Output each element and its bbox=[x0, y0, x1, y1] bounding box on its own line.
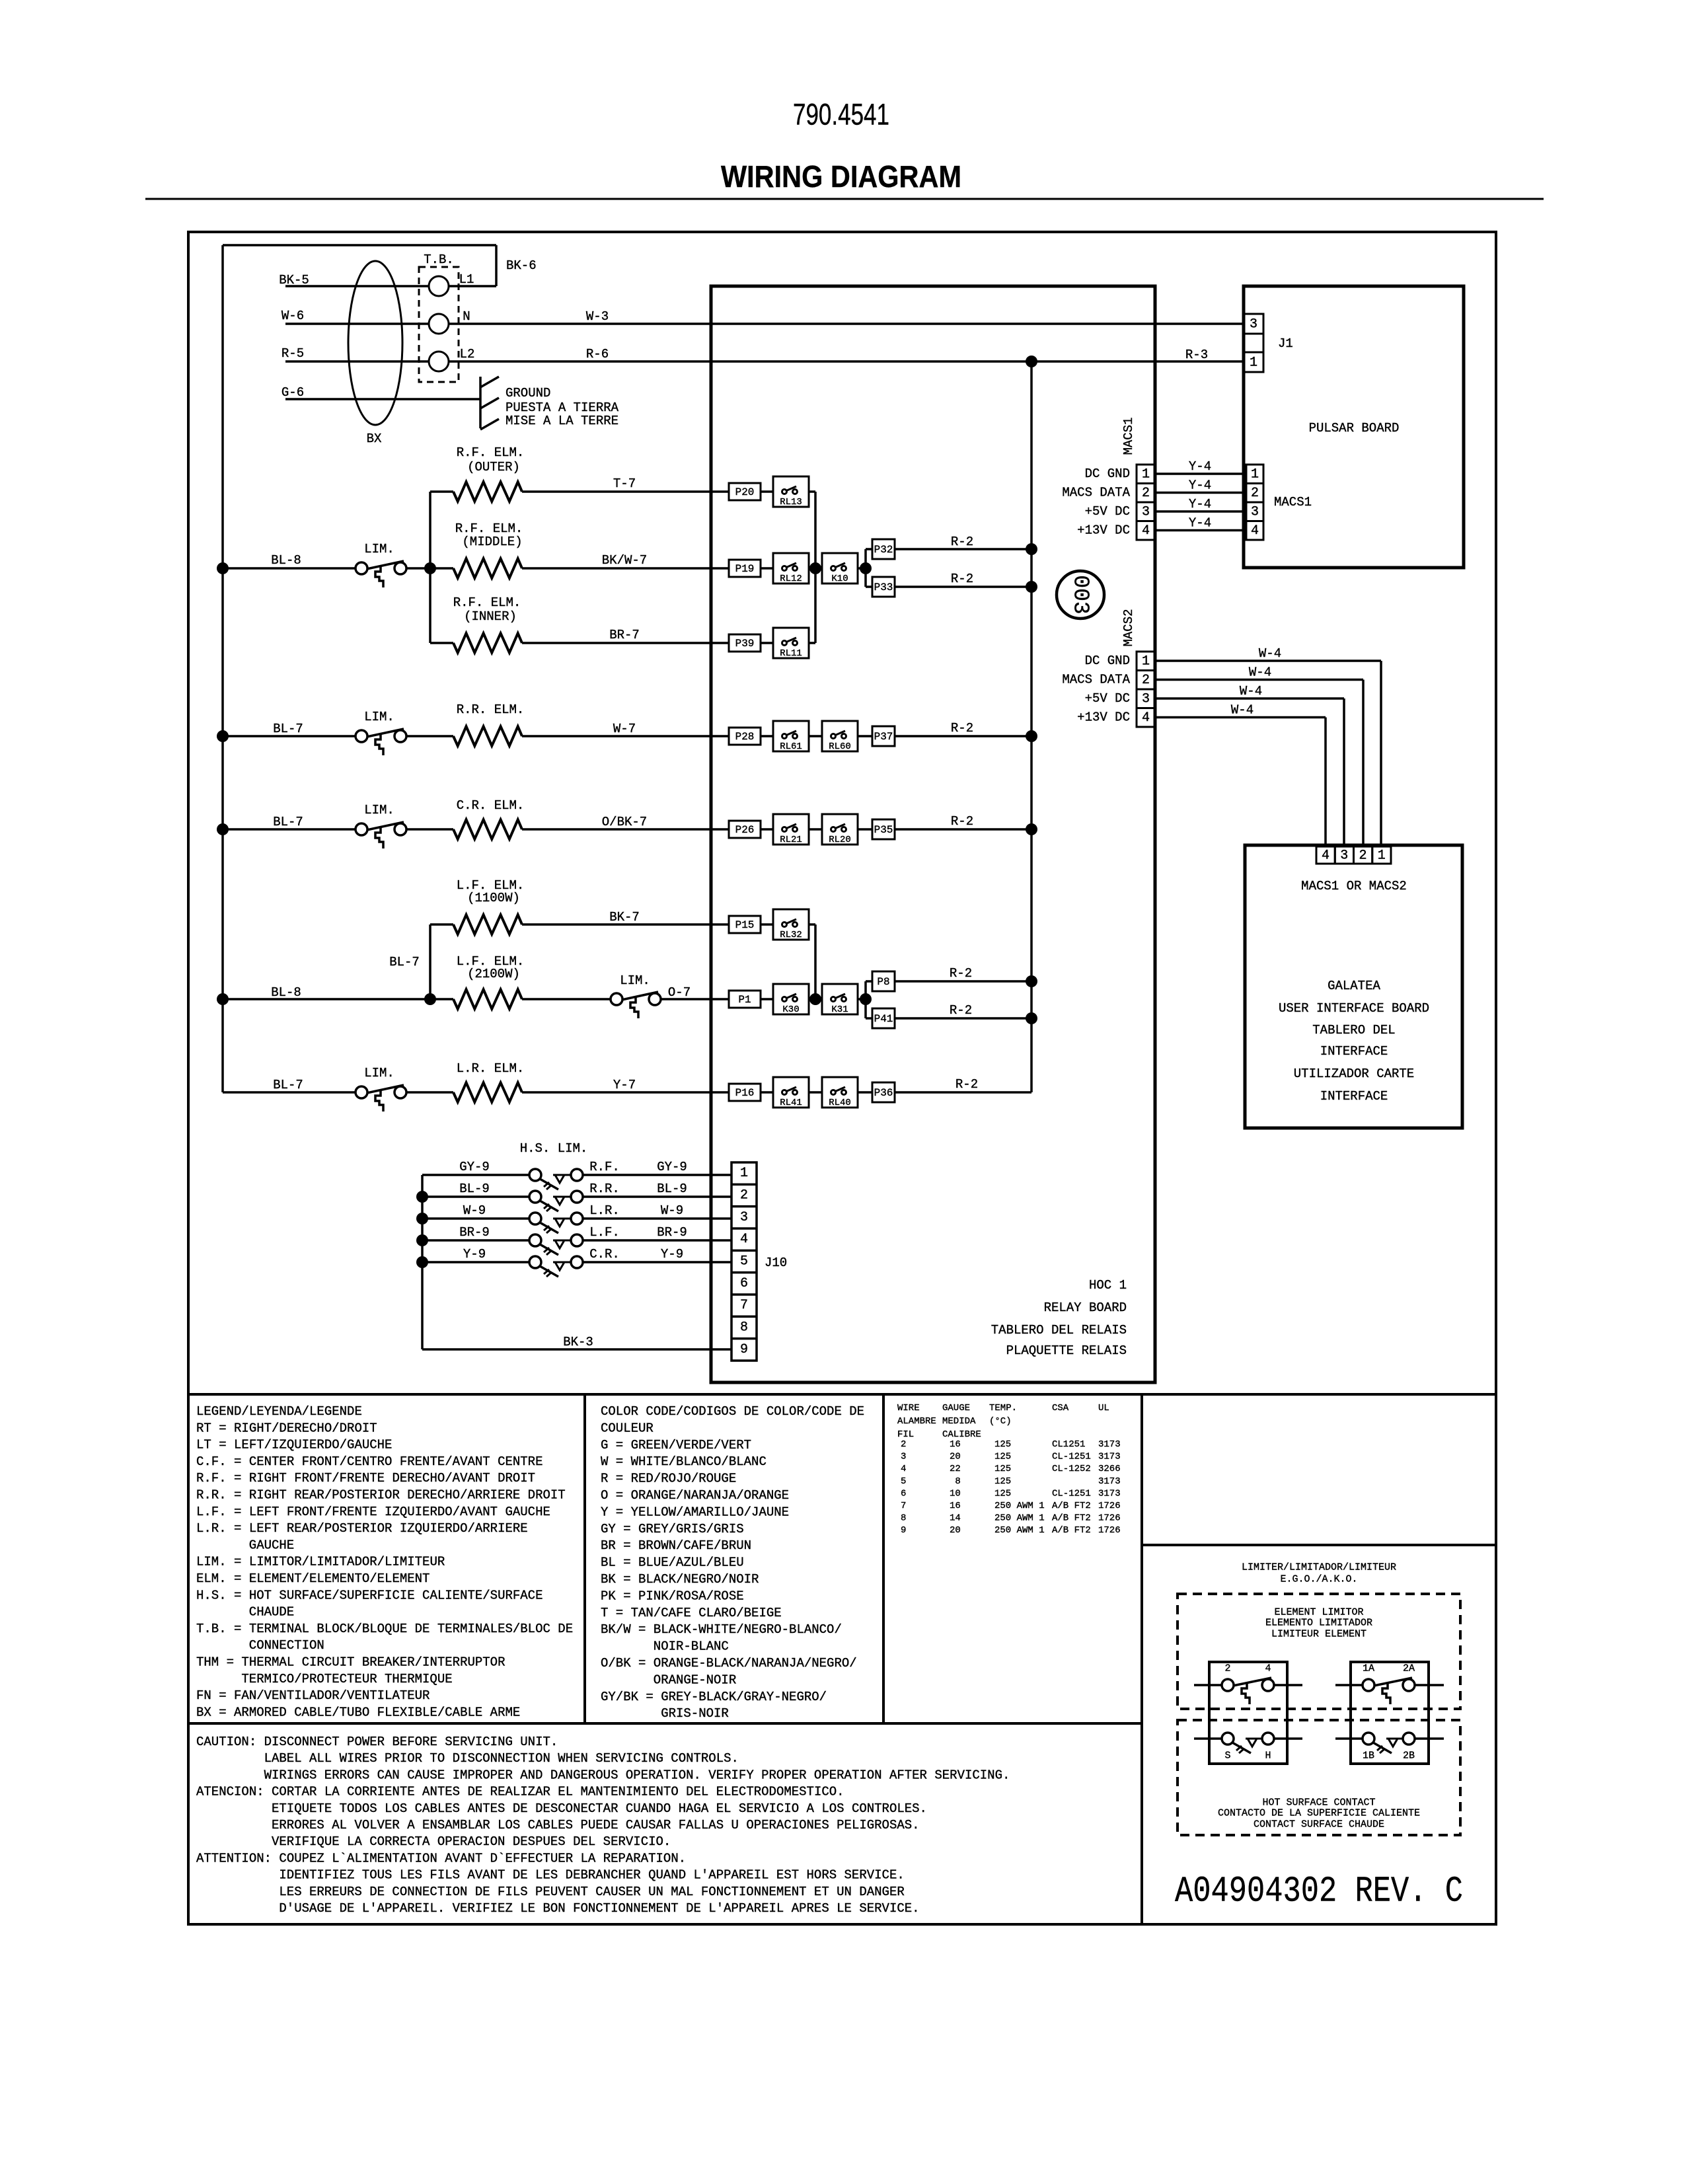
svg-text:1: 1 bbox=[1378, 848, 1386, 864]
svg-text:Y = YELLOW/AMARILLO/JAUNE: Y = YELLOW/AMARILLO/JAUNE bbox=[601, 1505, 789, 1519]
svg-text:BR-9: BR-9 bbox=[459, 1225, 490, 1240]
svg-text:GY-9: GY-9 bbox=[657, 1160, 687, 1174]
svg-text:TABLERO DEL: TABLERO DEL bbox=[1312, 1023, 1395, 1037]
svg-text:BR = BROWN/CAFE/BRUN: BR = BROWN/CAFE/BRUN bbox=[601, 1538, 751, 1553]
svg-text:250 AWM 1: 250 AWM 1 bbox=[994, 1525, 1045, 1536]
svg-text:4: 4 bbox=[901, 1464, 906, 1474]
svg-text:TEMP.: TEMP. bbox=[989, 1403, 1017, 1413]
svg-text:1726: 1726 bbox=[1098, 1513, 1121, 1524]
svg-text:CONTACT SURFACE CHAUDE: CONTACT SURFACE CHAUDE bbox=[1254, 1819, 1384, 1830]
svg-text:GY-9: GY-9 bbox=[459, 1160, 490, 1174]
svg-text:3173: 3173 bbox=[1098, 1452, 1121, 1462]
svg-text:2: 2 bbox=[740, 1188, 748, 1203]
svg-text:22: 22 bbox=[950, 1464, 961, 1474]
svg-text:G-6: G-6 bbox=[281, 385, 304, 400]
svg-text:BL = BLUE/AZUL/BLEU: BL = BLUE/AZUL/BLEU bbox=[601, 1556, 744, 1570]
svg-text:VERIFIQUE LA CORRECTA OPERACIO: VERIFIQUE LA CORRECTA OPERACION DESPUES … bbox=[272, 1834, 671, 1849]
svg-text:R.R. ELM.: R.R. ELM. bbox=[457, 702, 525, 717]
svg-text:3173: 3173 bbox=[1098, 1476, 1121, 1487]
svg-text:2: 2 bbox=[901, 1439, 906, 1450]
svg-text:BL-7: BL-7 bbox=[273, 1078, 303, 1092]
svg-text:LIM.: LIM. bbox=[620, 973, 650, 988]
svg-text:GRIS-NOIR: GRIS-NOIR bbox=[661, 1706, 729, 1721]
svg-text:ATTENTION: COUPEZ L`ALIMENTATI: ATTENTION: COUPEZ L`ALIMENTATION AVANT D… bbox=[196, 1851, 686, 1865]
svg-text:P41: P41 bbox=[874, 1013, 893, 1025]
svg-text:125: 125 bbox=[994, 1452, 1011, 1462]
svg-text:2: 2 bbox=[1251, 486, 1259, 501]
svg-text:K10: K10 bbox=[831, 574, 848, 584]
svg-text:(OUTER): (OUTER) bbox=[467, 460, 520, 474]
svg-text:CL-1251: CL-1251 bbox=[1052, 1452, 1091, 1462]
svg-text:A04904302 REV. C: A04904302 REV. C bbox=[1175, 1871, 1463, 1912]
svg-text:N: N bbox=[463, 309, 470, 324]
svg-text:R.F. ELM.: R.F. ELM. bbox=[455, 521, 523, 536]
svg-text:LT = LEFT/IZQUIERDO/GAUCHE: LT = LEFT/IZQUIERDO/GAUCHE bbox=[196, 1438, 392, 1452]
svg-text:2: 2 bbox=[1359, 848, 1367, 864]
svg-text:MACS1 OR MACS2: MACS1 OR MACS2 bbox=[1301, 879, 1407, 893]
svg-text:3266: 3266 bbox=[1098, 1464, 1121, 1474]
svg-text:S: S bbox=[1224, 1751, 1230, 1762]
svg-text:LABEL ALL WIRES PRIOR TO DISCO: LABEL ALL WIRES PRIOR TO DISCONNECTION W… bbox=[264, 1751, 739, 1766]
svg-text:4: 4 bbox=[1142, 523, 1150, 539]
svg-text:BL-9: BL-9 bbox=[459, 1182, 490, 1196]
svg-text:GY = GREY/GRIS/GRIS: GY = GREY/GRIS/GRIS bbox=[601, 1522, 744, 1536]
svg-text:K31: K31 bbox=[831, 1004, 848, 1015]
svg-text:1: 1 bbox=[740, 1166, 748, 1181]
svg-text:P36: P36 bbox=[874, 1087, 893, 1099]
svg-text:16: 16 bbox=[950, 1439, 961, 1450]
svg-text:MISE A LA TERRE: MISE A LA TERRE bbox=[505, 414, 618, 428]
svg-text:DC GND: DC GND bbox=[1085, 654, 1130, 668]
svg-text:7: 7 bbox=[740, 1298, 748, 1313]
svg-text:W-4: W-4 bbox=[1231, 703, 1254, 718]
svg-text:R.F. ELM.: R.F. ELM. bbox=[453, 595, 521, 610]
svg-text:GY/BK = GREY-BLACK/GRAY-NEGRO/: GY/BK = GREY-BLACK/GRAY-NEGRO/ bbox=[601, 1690, 827, 1704]
svg-text:MACS DATA: MACS DATA bbox=[1062, 486, 1130, 500]
svg-text:W-7: W-7 bbox=[613, 722, 636, 736]
svg-text:O/BK-7: O/BK-7 bbox=[602, 815, 647, 829]
svg-text:16: 16 bbox=[950, 1501, 961, 1511]
svg-text:H: H bbox=[1265, 1751, 1271, 1762]
svg-text:RL41: RL41 bbox=[780, 1098, 802, 1108]
svg-text:LIM.: LIM. bbox=[364, 710, 394, 724]
svg-text:THM = THERMAL CIRCUIT BREAKER/: THM = THERMAL CIRCUIT BREAKER/INTERRUPTO… bbox=[196, 1655, 505, 1670]
svg-text:1A: 1A bbox=[1363, 1663, 1374, 1675]
svg-text:125: 125 bbox=[994, 1464, 1011, 1474]
svg-text:NOIR-BLANC: NOIR-BLANC bbox=[654, 1639, 729, 1654]
svg-text:5: 5 bbox=[901, 1476, 906, 1487]
svg-text:4: 4 bbox=[1265, 1663, 1271, 1675]
svg-text:10: 10 bbox=[950, 1488, 961, 1499]
svg-text:1: 1 bbox=[1251, 467, 1259, 482]
svg-text:R-6: R-6 bbox=[586, 347, 609, 361]
svg-text:INTERFACE: INTERFACE bbox=[1320, 1044, 1388, 1059]
svg-text:P8: P8 bbox=[877, 976, 889, 988]
svg-text:PULSAR BOARD: PULSAR BOARD bbox=[1309, 421, 1400, 435]
svg-text:L.R.: L.R. bbox=[589, 1203, 620, 1218]
svg-text:3: 3 bbox=[1340, 848, 1348, 864]
svg-text:LIM. = LIMITOR/LIMITADOR/LIMIT: LIM. = LIMITOR/LIMITADOR/LIMITEUR bbox=[196, 1555, 445, 1569]
svg-text:MACS2: MACS2 bbox=[1121, 609, 1136, 646]
svg-text:3: 3 bbox=[1251, 505, 1259, 520]
svg-text:BK-7: BK-7 bbox=[609, 910, 640, 924]
svg-text:FN = FAN/VENTILADOR/VENTILATEU: FN = FAN/VENTILADOR/VENTILATEUR bbox=[196, 1688, 430, 1703]
svg-text:1: 1 bbox=[1250, 356, 1257, 371]
svg-text:ETIQUETE TODOS LOS CABLES ANTE: ETIQUETE TODOS LOS CABLES ANTES DE DESCO… bbox=[272, 1801, 927, 1816]
svg-text:(2100W): (2100W) bbox=[467, 967, 520, 981]
svg-text:ELEMENT LIMITOR: ELEMENT LIMITOR bbox=[1274, 1607, 1363, 1618]
svg-text:A/B FT2: A/B FT2 bbox=[1052, 1525, 1091, 1536]
svg-text:R-2: R-2 bbox=[955, 1077, 978, 1092]
svg-text:R.F. ELM.: R.F. ELM. bbox=[457, 445, 525, 460]
svg-text:BR-7: BR-7 bbox=[609, 628, 640, 642]
svg-text:BL-7: BL-7 bbox=[273, 722, 303, 736]
svg-text:RL12: RL12 bbox=[780, 574, 802, 584]
svg-text:BL-8: BL-8 bbox=[271, 985, 301, 1000]
svg-text:8: 8 bbox=[955, 1476, 960, 1487]
svg-text:6: 6 bbox=[901, 1488, 906, 1499]
svg-text:RL21: RL21 bbox=[780, 835, 802, 845]
svg-text:RELAY BOARD: RELAY BOARD bbox=[1044, 1300, 1127, 1315]
svg-text:CL1251: CL1251 bbox=[1052, 1439, 1085, 1450]
svg-text:L.F. = LEFT FRONT/FRENTE IZQUI: L.F. = LEFT FRONT/FRENTE IZQUIERDO/AVANT… bbox=[196, 1505, 550, 1519]
svg-text:2: 2 bbox=[1142, 486, 1150, 501]
svg-text:250 AWM 1: 250 AWM 1 bbox=[994, 1513, 1045, 1524]
svg-text:Y-7: Y-7 bbox=[613, 1078, 636, 1092]
svg-text:3173: 3173 bbox=[1098, 1439, 1121, 1450]
svg-text:P32: P32 bbox=[874, 544, 893, 556]
svg-text:Y-9: Y-9 bbox=[463, 1247, 486, 1261]
svg-text:8: 8 bbox=[901, 1513, 906, 1524]
svg-text:RL11: RL11 bbox=[780, 648, 802, 659]
svg-text:BK-3: BK-3 bbox=[563, 1335, 593, 1349]
svg-text:BR-9: BR-9 bbox=[657, 1225, 687, 1240]
svg-text:CHAUDE: CHAUDE bbox=[249, 1605, 294, 1620]
svg-text:BK/W = BLACK-WHITE/NEGRO-BLANC: BK/W = BLACK-WHITE/NEGRO-BLANCO/ bbox=[601, 1622, 842, 1637]
svg-text:4: 4 bbox=[1251, 523, 1259, 539]
svg-text:E.G.O./A.K.O.: E.G.O./A.K.O. bbox=[1280, 1574, 1357, 1585]
svg-text:BL-9: BL-9 bbox=[657, 1182, 687, 1196]
svg-text:CL-1252: CL-1252 bbox=[1052, 1464, 1091, 1474]
svg-text:6: 6 bbox=[740, 1276, 748, 1291]
svg-text:GROUND: GROUND bbox=[505, 386, 550, 400]
svg-text:K30: K30 bbox=[782, 1004, 799, 1015]
svg-text:BK = BLACK/NEGRO/NOIR: BK = BLACK/NEGRO/NOIR bbox=[601, 1572, 759, 1587]
svg-text:MACS1: MACS1 bbox=[1121, 417, 1136, 455]
svg-text:RL32: RL32 bbox=[780, 930, 802, 940]
svg-text:(°C): (°C) bbox=[989, 1416, 1012, 1427]
svg-text:2: 2 bbox=[1142, 673, 1150, 688]
svg-text:1: 1 bbox=[1142, 467, 1150, 482]
svg-text:3: 3 bbox=[740, 1210, 748, 1225]
svg-text:ALAMBRE: ALAMBRE bbox=[897, 1416, 936, 1427]
svg-text:P16: P16 bbox=[735, 1087, 755, 1099]
svg-text:+13V DC: +13V DC bbox=[1077, 710, 1130, 725]
svg-text:TABLERO DEL RELAIS: TABLERO DEL RELAIS bbox=[991, 1323, 1127, 1337]
svg-text:LEGEND/LEYENDA/LEGENDE: LEGEND/LEYENDA/LEGENDE bbox=[196, 1404, 362, 1419]
svg-text:3: 3 bbox=[1142, 692, 1150, 707]
svg-text:G = GREEN/VERDE/VERT: G = GREEN/VERDE/VERT bbox=[601, 1438, 751, 1452]
svg-text:LIMITER/LIMITADOR/LIMITEUR: LIMITER/LIMITADOR/LIMITEUR bbox=[1242, 1562, 1396, 1573]
svg-text:R-5: R-5 bbox=[281, 346, 304, 361]
svg-text:RT = RIGHT/DERECHO/DROIT: RT = RIGHT/DERECHO/DROIT bbox=[196, 1421, 377, 1435]
svg-text:Y-4: Y-4 bbox=[1189, 459, 1211, 474]
svg-text:CONTACTO DE LA SUPERFICIE CALI: CONTACTO DE LA SUPERFICIE CALIENTE bbox=[1218, 1808, 1420, 1819]
svg-text:R.R. = RIGHT REAR/POSTERIOR DE: R.R. = RIGHT REAR/POSTERIOR DERECHO/ARRI… bbox=[196, 1488, 566, 1503]
svg-text:H.S. LIM.: H.S. LIM. bbox=[520, 1141, 588, 1156]
svg-text:P33: P33 bbox=[874, 582, 893, 593]
svg-text:125: 125 bbox=[994, 1439, 1011, 1450]
svg-text:W-9: W-9 bbox=[463, 1203, 486, 1218]
svg-text:C.R.: C.R. bbox=[589, 1247, 620, 1261]
svg-text:ELEMENTO LIMITADOR: ELEMENTO LIMITADOR bbox=[1265, 1618, 1372, 1629]
svg-text:P37: P37 bbox=[874, 731, 893, 743]
svg-text:5: 5 bbox=[740, 1254, 748, 1269]
svg-text:9: 9 bbox=[740, 1342, 748, 1357]
svg-text:(1100W): (1100W) bbox=[467, 891, 520, 905]
svg-text:LES ERREURS DE CONNECTION DE F: LES ERREURS DE CONNECTION DE FILS PEUVEN… bbox=[279, 1885, 904, 1899]
svg-text:4: 4 bbox=[1142, 710, 1150, 726]
svg-text:A/B FT2: A/B FT2 bbox=[1052, 1501, 1091, 1511]
svg-text:T = TAN/CAFE CLARO/BEIGE: T = TAN/CAFE CLARO/BEIGE bbox=[601, 1606, 782, 1620]
svg-text:O/BK = ORANGE-BLACK/NARANJA/NE: O/BK = ORANGE-BLACK/NARANJA/NEGRO/ bbox=[601, 1656, 857, 1671]
svg-text:PUESTA A TIERRA: PUESTA A TIERRA bbox=[505, 400, 619, 415]
svg-text:MEDIDA: MEDIDA bbox=[942, 1416, 976, 1427]
svg-text:14: 14 bbox=[950, 1513, 961, 1524]
svg-text:WIRINGS ERRORS CAN CAUSE IMPRO: WIRINGS ERRORS CAN CAUSE IMPROPER AND DA… bbox=[264, 1768, 1010, 1782]
svg-text:L2: L2 bbox=[460, 347, 475, 361]
svg-text:R-3: R-3 bbox=[1185, 348, 1208, 362]
svg-text:R-2: R-2 bbox=[951, 814, 973, 829]
svg-text:2: 2 bbox=[1224, 1663, 1230, 1675]
svg-text:R-2: R-2 bbox=[950, 1003, 972, 1018]
svg-text:R.F.: R.F. bbox=[589, 1160, 620, 1174]
svg-text:RL61: RL61 bbox=[780, 741, 802, 752]
svg-text:PLAQUETTE RELAIS: PLAQUETTE RELAIS bbox=[1006, 1343, 1127, 1358]
svg-text:J1: J1 bbox=[1278, 336, 1293, 351]
svg-text:A/B FT2: A/B FT2 bbox=[1052, 1513, 1091, 1524]
svg-text:COULEUR: COULEUR bbox=[601, 1421, 654, 1435]
svg-text:BX = ARMORED CABLE/TUBO FLEXIB: BX = ARMORED CABLE/TUBO FLEXIBLE/CABLE A… bbox=[196, 1705, 520, 1719]
svg-text:PK = PINK/ROSA/ROSE: PK = PINK/ROSA/ROSE bbox=[601, 1589, 744, 1603]
svg-text:4: 4 bbox=[740, 1232, 748, 1247]
svg-text:TERMICO/PROTECTEUR THERMIQUE: TERMICO/PROTECTEUR THERMIQUE bbox=[241, 1672, 452, 1686]
svg-text:MACS DATA: MACS DATA bbox=[1062, 673, 1130, 687]
svg-text:L.F.: L.F. bbox=[589, 1225, 620, 1240]
svg-text:W-4: W-4 bbox=[1249, 665, 1271, 680]
svg-text:O-7: O-7 bbox=[668, 985, 691, 1000]
svg-text:INTERFACE: INTERFACE bbox=[1320, 1089, 1388, 1104]
svg-text:Y-9: Y-9 bbox=[661, 1247, 683, 1261]
svg-text:H.S. = HOT SURFACE/SUPERFICIE: H.S. = HOT SURFACE/SUPERFICIE CALIENTE/S… bbox=[196, 1588, 543, 1602]
svg-text:R = RED/ROJO/ROUGE: R = RED/ROJO/ROUGE bbox=[601, 1472, 736, 1486]
svg-text:7: 7 bbox=[901, 1501, 906, 1511]
svg-text:1B: 1B bbox=[1363, 1751, 1374, 1762]
svg-text:D'USAGE DE L'APPAREIL. VERIFIE: D'USAGE DE L'APPAREIL. VERIFIEZ LE BON F… bbox=[279, 1901, 919, 1916]
svg-text:Y-4: Y-4 bbox=[1189, 497, 1211, 511]
svg-text:J10: J10 bbox=[765, 1256, 787, 1270]
svg-text:BK-6: BK-6 bbox=[506, 258, 537, 273]
svg-text:LIM.: LIM. bbox=[364, 1066, 394, 1080]
svg-text:CSA: CSA bbox=[1052, 1403, 1069, 1413]
svg-text:USER INTERFACE BOARD: USER INTERFACE BOARD bbox=[1279, 1001, 1429, 1016]
svg-text:O = ORANGE/NARANJA/ORANGE: O = ORANGE/NARANJA/ORANGE bbox=[601, 1488, 789, 1503]
svg-text:003: 003 bbox=[1068, 575, 1093, 614]
svg-text:W = WHITE/BLANCO/BLANC: W = WHITE/BLANCO/BLANC bbox=[601, 1454, 767, 1469]
svg-text:RL13: RL13 bbox=[780, 497, 802, 508]
svg-text:2B: 2B bbox=[1403, 1751, 1415, 1762]
svg-text:1726: 1726 bbox=[1098, 1501, 1121, 1511]
svg-text:ELM. = ELEMENT/ELEMENTO/ELEMEN: ELM. = ELEMENT/ELEMENTO/ELEMENT bbox=[196, 1571, 430, 1586]
svg-text:4: 4 bbox=[1322, 848, 1329, 864]
svg-text:ATENCION: CORTAR LA CORRIENTE: ATENCION: CORTAR LA CORRIENTE ANTES DE R… bbox=[196, 1785, 844, 1799]
svg-text:BL-7: BL-7 bbox=[273, 815, 303, 829]
svg-text:1: 1 bbox=[1142, 654, 1150, 669]
svg-text:C.R. ELM.: C.R. ELM. bbox=[457, 798, 525, 813]
svg-text:WIRE: WIRE bbox=[897, 1403, 920, 1413]
svg-text:3: 3 bbox=[1250, 317, 1257, 332]
svg-text:CAUTION: DISCONNECT POWER BEFO: CAUTION: DISCONNECT POWER BEFORE SERVICI… bbox=[196, 1735, 558, 1749]
svg-text:125: 125 bbox=[994, 1476, 1011, 1487]
svg-text:LIM.: LIM. bbox=[364, 803, 394, 817]
svg-text:C.F. = CENTER FRONT/CENTRO FRE: C.F. = CENTER FRONT/CENTRO FRENTE/AVANT … bbox=[196, 1454, 543, 1469]
svg-text:ERRORES AL VOLVER A ENSAMBLAR: ERRORES AL VOLVER A ENSAMBLAR LOS CABLES… bbox=[272, 1818, 920, 1832]
svg-text:MACS1: MACS1 bbox=[1274, 495, 1312, 509]
svg-text:R.R.: R.R. bbox=[589, 1182, 620, 1196]
svg-text:HOT SURFACE CONTACT: HOT SURFACE CONTACT bbox=[1262, 1797, 1375, 1809]
svg-text:8: 8 bbox=[740, 1320, 748, 1336]
svg-text:GAUCHE: GAUCHE bbox=[249, 1538, 294, 1552]
svg-text:T-7: T-7 bbox=[613, 476, 636, 491]
svg-text:BL-8: BL-8 bbox=[271, 553, 301, 568]
svg-text:CONNECTION: CONNECTION bbox=[249, 1638, 324, 1653]
svg-text:DC GND: DC GND bbox=[1085, 467, 1130, 481]
svg-text:Y-4: Y-4 bbox=[1189, 478, 1211, 493]
svg-text:UTILIZADOR CARTE: UTILIZADOR CARTE bbox=[1294, 1067, 1414, 1081]
svg-text:ORANGE-NOIR: ORANGE-NOIR bbox=[654, 1673, 736, 1687]
svg-text:T.B. = TERMINAL BLOCK/BLOQUE D: T.B. = TERMINAL BLOCK/BLOQUE DE TERMINAL… bbox=[196, 1622, 573, 1636]
svg-text:P19: P19 bbox=[735, 563, 755, 575]
svg-text:RL40: RL40 bbox=[829, 1098, 851, 1108]
svg-text:W-4: W-4 bbox=[1240, 684, 1262, 698]
svg-text:L.R. ELM.: L.R. ELM. bbox=[457, 1061, 525, 1076]
svg-text:R-2: R-2 bbox=[950, 966, 972, 981]
svg-text:BK-5: BK-5 bbox=[279, 273, 309, 287]
svg-text:BK/W-7: BK/W-7 bbox=[602, 553, 647, 568]
svg-text:P35: P35 bbox=[874, 824, 893, 836]
svg-text:BL-7: BL-7 bbox=[389, 955, 420, 969]
svg-text:P20: P20 bbox=[735, 486, 755, 498]
svg-text:+5V DC: +5V DC bbox=[1085, 504, 1130, 519]
svg-text:P26: P26 bbox=[735, 824, 755, 836]
svg-text:3173: 3173 bbox=[1098, 1488, 1121, 1499]
svg-text:R-2: R-2 bbox=[951, 535, 973, 549]
svg-text:P28: P28 bbox=[735, 731, 755, 743]
svg-text:(MIDDLE): (MIDDLE) bbox=[462, 535, 522, 549]
svg-text:20: 20 bbox=[950, 1452, 961, 1462]
svg-text:RL20: RL20 bbox=[829, 835, 851, 845]
svg-text:BX: BX bbox=[367, 432, 382, 446]
svg-text:W-3: W-3 bbox=[586, 309, 609, 324]
svg-text:LIM.: LIM. bbox=[364, 542, 394, 556]
svg-text:1726: 1726 bbox=[1098, 1525, 1121, 1536]
svg-text:790.4541: 790.4541 bbox=[793, 98, 889, 132]
svg-text:2A: 2A bbox=[1403, 1663, 1415, 1675]
svg-text:CALIBRE: CALIBRE bbox=[942, 1429, 981, 1440]
svg-text:250 AWM 1: 250 AWM 1 bbox=[994, 1501, 1045, 1511]
svg-text:WIRING DIAGRAM: WIRING DIAGRAM bbox=[721, 159, 961, 194]
svg-text:GALATEA: GALATEA bbox=[1328, 979, 1380, 993]
svg-text:+5V DC: +5V DC bbox=[1085, 691, 1130, 706]
svg-text:9: 9 bbox=[901, 1525, 906, 1536]
svg-text:3: 3 bbox=[901, 1452, 906, 1462]
svg-text:+13V DC: +13V DC bbox=[1077, 523, 1130, 538]
svg-text:W-9: W-9 bbox=[661, 1203, 683, 1218]
svg-text:P1: P1 bbox=[738, 994, 751, 1006]
svg-text:CL-1251: CL-1251 bbox=[1052, 1488, 1091, 1499]
svg-text:LIMITEUR ELEMENT: LIMITEUR ELEMENT bbox=[1271, 1629, 1367, 1640]
svg-text:W-4: W-4 bbox=[1259, 646, 1281, 661]
svg-text:FIL: FIL bbox=[897, 1429, 914, 1440]
svg-text:COLOR CODE/CODIGOS DE COLOR/CO: COLOR CODE/CODIGOS DE COLOR/CODE DE bbox=[601, 1404, 864, 1419]
svg-text:L1: L1 bbox=[459, 272, 474, 287]
svg-text:L.R. = LEFT REAR/POSTERIOR IZQ: L.R. = LEFT REAR/POSTERIOR IZQUIERDO/ARR… bbox=[196, 1521, 528, 1536]
svg-text:RL60: RL60 bbox=[829, 741, 851, 752]
svg-text:UL: UL bbox=[1098, 1403, 1109, 1413]
svg-text:GAUGE: GAUGE bbox=[942, 1403, 970, 1413]
svg-text:3: 3 bbox=[1142, 505, 1150, 520]
svg-text:HOC 1: HOC 1 bbox=[1089, 1278, 1127, 1293]
svg-text:P15: P15 bbox=[735, 919, 755, 931]
svg-text:P39: P39 bbox=[735, 638, 755, 650]
svg-text:125: 125 bbox=[994, 1488, 1011, 1499]
svg-text:IDENTIFIEZ TOUS LES FILS AVANT: IDENTIFIEZ TOUS LES FILS AVANT DE LES DE… bbox=[279, 1868, 904, 1883]
svg-text:R-2: R-2 bbox=[951, 721, 973, 735]
svg-text:R-2: R-2 bbox=[951, 572, 973, 586]
svg-text:R.F. = RIGHT FRONT/FRENTE DERE: R.F. = RIGHT FRONT/FRENTE DERECHO/AVANT … bbox=[196, 1471, 535, 1486]
svg-text:W-6: W-6 bbox=[281, 309, 304, 323]
svg-text:T.B.: T.B. bbox=[424, 252, 454, 267]
svg-text:Y-4: Y-4 bbox=[1189, 516, 1211, 531]
svg-text:20: 20 bbox=[950, 1525, 961, 1536]
svg-text:(INNER): (INNER) bbox=[464, 609, 517, 624]
